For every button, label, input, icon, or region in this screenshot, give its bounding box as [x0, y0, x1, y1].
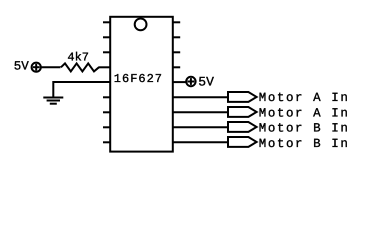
svg-text:Motor B In: Motor B In	[259, 122, 350, 136]
svg-text:Motor A In: Motor A In	[259, 106, 350, 120]
pin 8 left stub	[103, 126, 110, 128]
wire 5V supply to resistor	[41, 66, 61, 68]
wire pin 11 to Motor B In connector	[173, 126, 228, 128]
pin 1 left stub	[103, 21, 110, 23]
wire pin 14 to +5V supply	[173, 81, 187, 83]
pin 9 left stub	[103, 141, 110, 143]
wire pin 13 to Motor A In connector	[173, 96, 228, 98]
svg-text:Motor B In: Motor B In	[259, 137, 350, 151]
svg-text:Motor A In: Motor A In	[259, 91, 350, 105]
pin 18 right stub	[173, 21, 180, 23]
pin 15 right stub	[173, 66, 180, 68]
svg-text:4k7: 4k7	[67, 50, 89, 64]
svg-text:5V: 5V	[14, 59, 30, 73]
connector Motor A In (2)	[228, 107, 257, 117]
IC U1 16F627 body	[110, 17, 173, 152]
IC U1 orientation mark circle	[135, 19, 147, 31]
connector Motor B In (1)	[228, 122, 257, 132]
svg-text:5V: 5V	[198, 75, 214, 90]
connector Motor A In (1)	[228, 92, 257, 102]
ground symbol	[43, 98, 63, 104]
pin 6 left stub	[103, 96, 110, 98]
pin 7 left stub	[103, 111, 110, 113]
5V supply symbol left	[32, 63, 41, 72]
pin 17 right stub	[173, 36, 180, 38]
wire pin 10 to Motor B In connector	[173, 141, 228, 143]
pin 3 left stub	[103, 51, 110, 53]
resistor R1 4k7 zigzag	[61, 63, 99, 71]
wire pin 5 to ground	[53, 82, 110, 98]
wire resistor to pin 4	[99, 66, 111, 68]
wire pin 12 to Motor A In connector	[173, 111, 228, 113]
connector Motor B In (2)	[228, 137, 257, 147]
svg-text:16F627: 16F627	[114, 72, 163, 86]
pin 16 right stub	[173, 51, 180, 53]
5V supply symbol right	[186, 77, 195, 86]
pin 2 left stub	[103, 36, 110, 38]
